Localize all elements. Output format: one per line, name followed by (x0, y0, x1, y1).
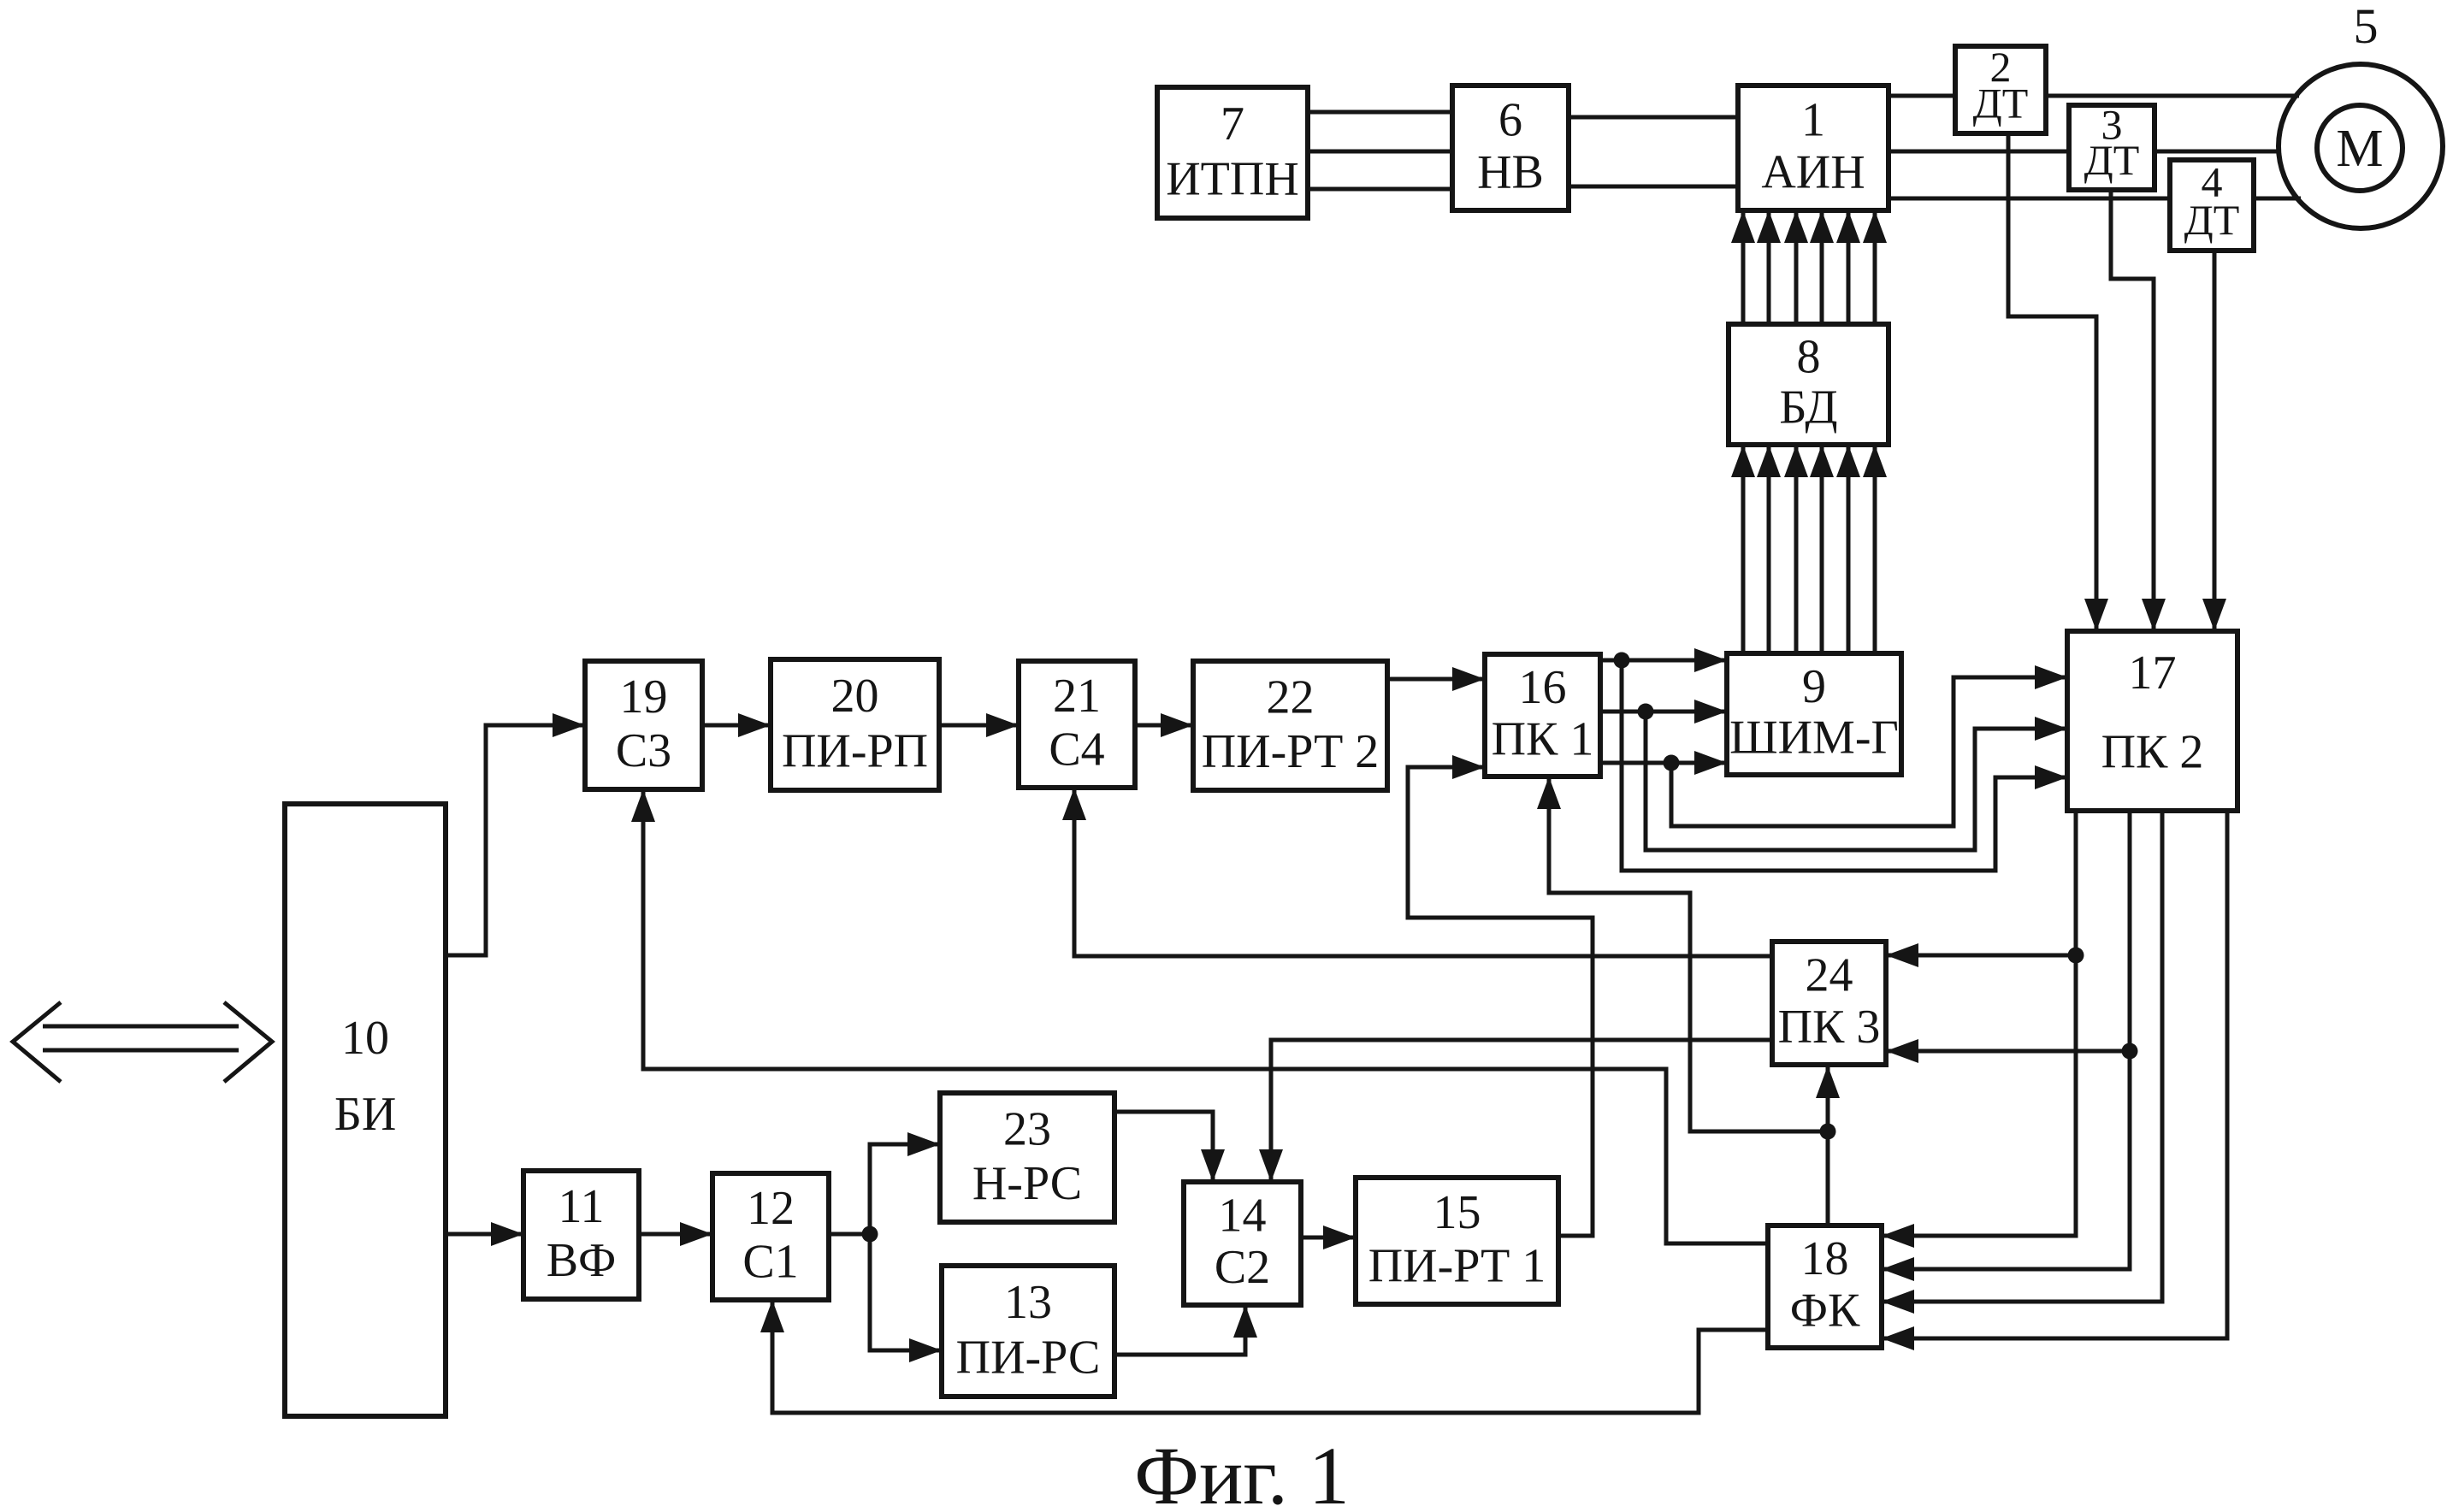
block 20 ПИ-РП (771, 659, 939, 790)
svg-text:ПК 1: ПК 1 (1492, 712, 1594, 765)
bus double arrow (БИ interface) (13, 1002, 272, 1082)
wire БД to АИН gate 5 (1836, 210, 1860, 324)
block 22 ПИ-РТ 2 (1193, 661, 1387, 790)
wire БИ to С3 (446, 713, 585, 955)
wire ПК3 to С4 (1062, 788, 1772, 956)
block 15 ПИ-РТ 1 (1356, 1178, 1558, 1304)
svg-text:ПИ-РТ 1: ПИ-РТ 1 (1368, 1239, 1546, 1292)
wire 7-6 line1 (1308, 110, 1452, 115)
wire Н-РС to С2 (1114, 1112, 1225, 1182)
svg-text:7: 7 (1221, 97, 1244, 151)
label 5 (motor) (2354, 0, 2379, 54)
wire 1-ДТ2-motor phase A (1889, 94, 2299, 98)
svg-text:ШИМ-Г: ШИМ-Г (1729, 711, 1899, 764)
svg-text:ИТПН: ИТПН (1166, 152, 1299, 205)
block 8 БД (1729, 324, 1889, 445)
block 14 С2 (1184, 1182, 1301, 1305)
svg-text:С2: С2 (1215, 1241, 1270, 1294)
wire ВФ to С1 (639, 1222, 712, 1246)
svg-text:11: 11 (559, 1180, 605, 1233)
svg-text:НВ: НВ (1477, 146, 1544, 199)
wire ПИ-РТ2 to ПК1 (1387, 667, 1485, 691)
wire БД to АИН gate 3 (1784, 210, 1808, 324)
svg-text:ФК: ФК (1790, 1284, 1860, 1337)
block 10 БИ (285, 804, 446, 1416)
wire ПК2 out4 to ФК (1882, 811, 2227, 1350)
wire ПК2 out1 to ПК3 and ФК (1882, 811, 2084, 1248)
svg-text:17: 17 (2129, 647, 2177, 700)
wire БД to АИН gate 1 (1731, 210, 1755, 324)
wire ПИ-РТ1 to ПК1 (1408, 755, 1593, 1236)
wire БД to АИН gate 6 (1863, 210, 1887, 324)
wire БД to АИН gate 2 (1757, 210, 1781, 324)
caption Фиг. 1 (1134, 1430, 1350, 1512)
block 6 НВ (1452, 86, 1569, 210)
wire ПК2 out3 to ФК (1882, 811, 2162, 1314)
wire БД to АИН gate 4 (1810, 210, 1834, 324)
wire ПК3 to С2 (1259, 1040, 1772, 1182)
wire ДТ2 to ПК2 (2008, 133, 2108, 631)
block 2 ДТ (1955, 43, 2046, 133)
svg-text:ДТ: ДТ (2184, 196, 2240, 244)
svg-text:12: 12 (747, 1182, 795, 1235)
wire ШИМ-Г to БД gate 1 (1731, 445, 1755, 653)
wire ПК1 out1 to ШИМ-Г and ПК2 (1600, 648, 2067, 871)
svg-text:ПИ-РС: ПИ-РС (956, 1331, 1101, 1384)
wire ПИ-РП to С4 (939, 713, 1019, 737)
svg-text:Фиг. 1: Фиг. 1 (1134, 1430, 1350, 1512)
svg-text:1: 1 (1801, 93, 1825, 146)
svg-text:Н-РС: Н-РС (972, 1157, 1082, 1210)
svg-text:ДТ: ДТ (2084, 136, 2140, 184)
block 21 С4 (1019, 661, 1135, 788)
svg-text:С4: С4 (1049, 723, 1104, 776)
svg-text:9: 9 (1802, 660, 1826, 713)
wire 1-ДТ4-motor phase C (1889, 197, 2301, 201)
svg-text:ПК 2: ПК 2 (2101, 726, 2204, 779)
wire ПК1 out3 to ШИМ-Г and ПК2 (1600, 665, 2067, 826)
svg-text:БИ: БИ (334, 1088, 397, 1141)
wire С1 to Н-РС and ПИ-РС (829, 1132, 942, 1362)
svg-text:БД: БД (1779, 381, 1837, 434)
block 19 С3 (585, 661, 702, 789)
block 23 Н-РС (940, 1093, 1114, 1222)
wire 7-6 line2 (1308, 150, 1452, 154)
svg-text:21: 21 (1053, 670, 1101, 723)
svg-text:15: 15 (1433, 1186, 1481, 1239)
wire БИ to ВФ (446, 1222, 523, 1246)
block 13 ПИ-РС (942, 1266, 1114, 1397)
wire ШИМ-Г to БД gate 4 (1810, 445, 1834, 653)
wire С3 to ПИ-РП (702, 713, 771, 737)
wire ФК to ПК3 and ПК1 (1537, 777, 1840, 1226)
svg-text:ПК 3: ПК 3 (1778, 1001, 1881, 1054)
svg-text:19: 19 (620, 670, 668, 724)
wire ПК2 out2 to ПК3 and ФК (1882, 811, 2138, 1281)
svg-text:20: 20 (831, 670, 879, 723)
block 1 АИН (1738, 86, 1889, 210)
wire 1-ДТ3-motor phase B (1889, 150, 2281, 154)
block 18 ФК (1768, 1226, 1882, 1348)
svg-text:16: 16 (1519, 661, 1567, 714)
wire 6-1 line1 (1569, 115, 1738, 120)
motor M (5) (2279, 64, 2443, 228)
svg-text:ДТ: ДТ (1973, 80, 2029, 127)
wire ДТ3 to ПК2 (2111, 190, 2166, 631)
wire 7-6 line3 (1308, 187, 1452, 192)
svg-text:18: 18 (1801, 1232, 1849, 1285)
wire 6-1 line2 (1569, 185, 1738, 189)
svg-text:АИН: АИН (1761, 146, 1865, 199)
wire ШИМ-Г to БД gate 5 (1836, 445, 1860, 653)
svg-text:С1: С1 (742, 1235, 798, 1288)
svg-text:13: 13 (1004, 1276, 1052, 1329)
wire ФК to С3 (631, 789, 1768, 1243)
svg-text:24: 24 (1806, 949, 1853, 1002)
svg-text:ПИ-РП: ПИ-РП (782, 724, 928, 777)
block 9 ШИМ-Г (1727, 653, 1901, 775)
block 16 ПК 1 (1485, 654, 1600, 777)
svg-text:22: 22 (1267, 670, 1315, 724)
wire ШИМ-Г to БД gate 6 (1863, 445, 1887, 653)
block 7 ИТПН (1157, 87, 1308, 218)
svg-text:С3: С3 (616, 724, 671, 777)
svg-text:8: 8 (1797, 330, 1821, 383)
svg-text:ВФ: ВФ (547, 1234, 617, 1287)
wire ПК1 out2 to ШИМ-Г and ПК2 (1600, 700, 2067, 850)
block 12 С1 (712, 1173, 829, 1300)
wire ШИМ-Г to БД gate 3 (1784, 445, 1808, 653)
wire С2 to ПИ-РТ1 (1301, 1226, 1356, 1249)
svg-text:М: М (2336, 120, 2383, 178)
wire ШИМ-Г to БД gate 2 (1757, 445, 1781, 653)
wire ФК to С1 (760, 1300, 1768, 1413)
svg-text:10: 10 (341, 1012, 389, 1065)
block 11 ВФ (523, 1171, 639, 1299)
wire ПИ-РС to С2 (1114, 1305, 1257, 1355)
svg-text:23: 23 (1003, 1102, 1051, 1155)
svg-text:ПИ-РТ 2: ПИ-РТ 2 (1202, 725, 1380, 778)
wire С4 to ПИ-РТ2 (1135, 713, 1193, 737)
svg-text:5: 5 (2354, 0, 2379, 54)
block 17 ПК 2 (2067, 631, 2237, 811)
svg-text:14: 14 (1219, 1190, 1267, 1243)
block 3 ДТ (2069, 101, 2155, 190)
wire ДТ4 to ПК2 (2202, 251, 2226, 631)
block 24 ПК 3 (1772, 942, 1886, 1065)
svg-text:6: 6 (1498, 93, 1522, 146)
block 4 ДТ (2170, 157, 2254, 251)
